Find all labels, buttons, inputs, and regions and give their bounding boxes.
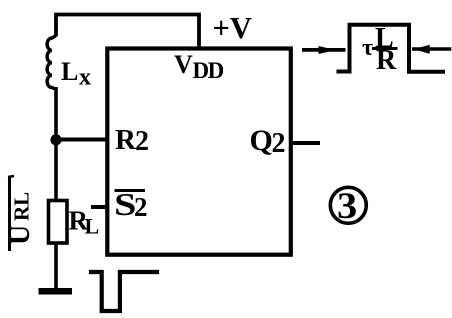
svg-text:τ: τ xyxy=(362,35,373,61)
svg-text:+V: +V xyxy=(213,11,252,45)
svg-text:3: 3 xyxy=(337,186,357,227)
svg-text:2: 2 xyxy=(272,128,286,159)
svg-text:V: V xyxy=(174,50,193,79)
svg-text:2: 2 xyxy=(135,126,149,157)
svg-text:x: x xyxy=(79,65,91,91)
svg-text:L: L xyxy=(85,214,100,239)
svg-text:2: 2 xyxy=(134,192,148,222)
svg-text:U: U xyxy=(5,225,36,245)
svg-text:RL: RL xyxy=(10,192,34,221)
svg-text:R: R xyxy=(115,124,137,156)
svg-text:DD: DD xyxy=(193,58,224,83)
svg-text:Q: Q xyxy=(250,124,273,157)
svg-text:L: L xyxy=(61,57,78,86)
svg-text:R: R xyxy=(376,45,397,76)
